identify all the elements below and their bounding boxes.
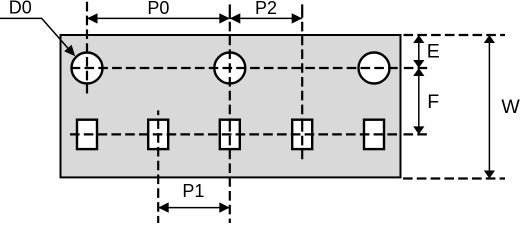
- carrier tape body: [61, 35, 401, 177]
- dimension E: [413, 35, 440, 68]
- dimension P2: [230, 0, 302, 24]
- pocket 5: [364, 120, 384, 149]
- svg-text:W: W: [501, 96, 520, 118]
- dimension F: [413, 68, 439, 134]
- svg-text:P0: P0: [147, 0, 169, 18]
- sprocket hole 2: [214, 53, 245, 84]
- centerline column 1: [86, 2, 88, 94]
- centerline column 3: [229, 4, 231, 223]
- svg-text:F: F: [427, 91, 439, 113]
- pocket 2: [148, 120, 168, 149]
- sprocket hole 1: [72, 53, 103, 84]
- pocket 1: [77, 120, 97, 149]
- svg-text:P1: P1: [182, 181, 204, 201]
- extension line bottom edge: [403, 177, 505, 179]
- centerline column 2: [157, 110, 159, 223]
- leader D0: [0, 0, 75, 56]
- centerline column 4: [301, 4, 303, 161]
- extension line sprocket row: [404, 67, 432, 69]
- svg-text:P2: P2: [255, 0, 277, 18]
- centerline sprocket row: [71, 67, 399, 69]
- dimension W: [484, 35, 520, 179]
- pocket 3: [220, 120, 240, 149]
- centerline pocket row: [70, 133, 399, 135]
- pocket 4: [292, 120, 312, 149]
- extension line pocket row: [404, 133, 432, 135]
- sprocket hole 3: [359, 53, 390, 84]
- svg-text:E: E: [427, 40, 440, 62]
- extension line top edge: [404, 34, 506, 36]
- svg-text:D0: D0: [9, 0, 32, 18]
- dimension P0: [87, 0, 230, 24]
- dimension P1: [158, 181, 230, 213]
